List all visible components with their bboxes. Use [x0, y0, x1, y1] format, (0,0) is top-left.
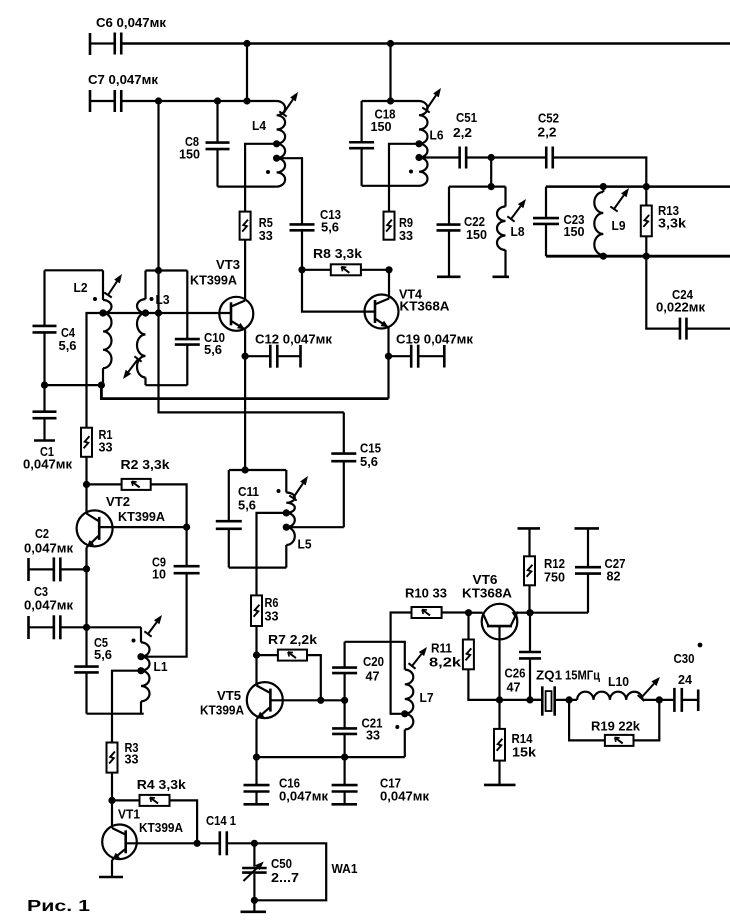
svg-text:15k: 15k [512, 745, 537, 760]
svg-text:150: 150 [564, 224, 585, 239]
capacitor C21 [332, 700, 382, 757]
node junction top rail / L4 feed [243, 40, 250, 47]
svg-text:5,6: 5,6 [360, 454, 378, 469]
svg-text:C2: C2 [35, 526, 49, 541]
wire C20 top to L7 top [345, 642, 405, 670]
L1 winding polarity dot [132, 639, 136, 643]
L5 trimmer arrow [289, 476, 308, 501]
quartz resonator ZQ1 [536, 669, 600, 716]
svg-text:33: 33 [125, 752, 139, 767]
svg-text:10: 10 [152, 567, 166, 582]
inductor L5 [286, 470, 311, 568]
svg-text:3,3k: 3,3k [658, 216, 687, 231]
wire C11 tank bottom [229, 566, 286, 568]
node VT5 emitter / C16 [253, 754, 260, 761]
L6 winding polarity dot [409, 170, 413, 174]
wire oscillator emitter bus [101, 385, 388, 399]
figure caption [27, 898, 91, 915]
wire L1 tap2 to R3 [112, 671, 141, 743]
svg-text:VT3: VT3 [216, 257, 240, 272]
wire collector node to C27 [530, 612, 588, 614]
resistor R3 [107, 740, 139, 773]
capacitor C2 [24, 526, 87, 581]
wire L5 tap1 to R6 [257, 513, 287, 596]
wire IF output top rail [546, 185, 730, 188]
wire C7 rail [121, 100, 276, 102]
wire VT5 emitter bus [257, 756, 405, 758]
wire R1 to VT2 collector node [85, 457, 87, 485]
node VT6 emitter-node / R12 / C26 [526, 609, 533, 616]
inductor L4 [252, 101, 285, 187]
node L9 top [600, 183, 607, 190]
C30 footnote asterisk dot [698, 643, 703, 648]
svg-text:KT368A: KT368A [400, 299, 451, 314]
resistor R7 [257, 632, 321, 700]
svg-text:0,047мк: 0,047мк [23, 457, 72, 472]
resistor R8 [302, 246, 389, 275]
resistor R11 [429, 613, 542, 700]
wire VT4 base from C13/R8 node [302, 270, 375, 312]
node VT2 emitter / C2 [83, 565, 90, 572]
svg-text:ZQ1: ZQ1 [536, 669, 562, 683]
node L4 tap 2 [273, 155, 280, 162]
L9 trimmer arrow [610, 188, 629, 212]
node R7 / VT5 base [317, 697, 324, 704]
svg-text:0,047мк: 0,047мк [279, 789, 328, 804]
svg-text:R4 3,3k: R4 3,3k [137, 777, 187, 792]
svg-text:24: 24 [678, 672, 693, 687]
svg-text:150: 150 [179, 147, 200, 162]
wire C15 to L5 tap2 [286, 526, 344, 528]
transistor VT3 [190, 257, 253, 331]
wire R3 to VT1 collector node [111, 773, 113, 801]
svg-text:0,047мк: 0,047мк [380, 789, 429, 804]
L3 name with polarity dot [150, 292, 170, 307]
resistor R12 [518, 528, 566, 612]
L4 trimmer arrow [279, 92, 298, 117]
svg-text:L3: L3 [156, 292, 170, 307]
svg-text:5,6: 5,6 [321, 220, 339, 235]
svg-text:R11: R11 [431, 641, 452, 656]
L3 trimmer arrow [123, 356, 142, 379]
svg-text:L6: L6 [430, 128, 444, 143]
svg-text:5,6: 5,6 [94, 647, 112, 662]
svg-text:750: 750 [544, 570, 565, 585]
svg-text:Рис. 1: Рис. 1 [27, 898, 91, 915]
node R2/C9/VT2-base [183, 524, 190, 531]
L2 winding polarity dot [93, 297, 97, 301]
resistor R19 [569, 700, 659, 746]
svg-text:L9: L9 [612, 218, 626, 233]
resistor R4 [112, 777, 197, 843]
capacitor C11 [216, 470, 259, 568]
capacitor C51 [453, 110, 477, 169]
wire C7 feed line down to C15 line [159, 101, 344, 412]
capacitor C4 [33, 270, 77, 385]
wire C5-L1 tank top [87, 626, 142, 628]
L7 trimmer arrow [408, 647, 427, 669]
capacitor C27 [575, 528, 626, 612]
node VT3-emitter/C11-tank [242, 466, 249, 473]
wire C7-feed corner to C15 [159, 411, 344, 413]
svg-text:L8: L8 [511, 224, 525, 239]
node C7/C8 junction [214, 97, 221, 104]
svg-text:C12 0,047мк: C12 0,047мк [255, 332, 332, 347]
node L8/C22 feed junction [488, 183, 495, 190]
svg-text:C6 0,047мк: C6 0,047мк [96, 15, 166, 30]
node C4/C1 junction [41, 382, 48, 389]
wire VT1 collector [111, 800, 113, 828]
L1 trimmer arrow [144, 615, 162, 637]
svg-text:C20: C20 [363, 654, 384, 669]
node L9 bottom [600, 253, 607, 260]
node C51/C52 junction [488, 154, 495, 161]
svg-text:R10 33: R10 33 [405, 586, 447, 601]
node R1/R2/VT2-collector [83, 481, 90, 488]
node C50/WA1 bottom [251, 897, 258, 904]
svg-text:L10: L10 [608, 675, 629, 689]
resistor R6 [251, 595, 279, 626]
svg-text:WA1: WA1 [332, 861, 358, 876]
capacitor C23 [533, 187, 585, 257]
inductor L2 [74, 270, 112, 385]
wire L4 tap1 to R5 [245, 144, 277, 212]
transistor VT1 [102, 807, 183, 861]
wire L6 tank bottom [362, 185, 419, 187]
node R4/C14/VT1-base [194, 840, 201, 847]
wire +supply top rail [121, 42, 730, 45]
svg-text:KT399A: KT399A [200, 703, 245, 718]
node VT3 emitter / C12 [242, 353, 249, 360]
svg-text:R8 3,3k: R8 3,3k [313, 246, 363, 261]
L7 winding polarity dot [395, 725, 399, 729]
svg-text:VT1: VT1 [118, 807, 140, 822]
node L7 tap [401, 710, 408, 717]
ground stub below C50 [241, 900, 267, 912]
capacitor C6 [90, 15, 166, 55]
svg-text:L1: L1 [154, 659, 168, 674]
node tap line / L3 [142, 309, 149, 316]
svg-text:C52: C52 [538, 111, 559, 126]
capacitor C18 [349, 101, 395, 186]
resistor R14 [484, 700, 537, 785]
svg-text:KT368A: KT368A [462, 586, 513, 601]
svg-text:47: 47 [507, 680, 521, 695]
capacitor C12 [245, 332, 332, 368]
inductor L10 [577, 675, 674, 700]
svg-text:C19 0,047мк: C19 0,047мк [396, 332, 473, 347]
svg-text:L4: L4 [252, 118, 267, 133]
capacitor C24 [646, 256, 730, 339]
svg-text:0,022мк: 0,022мк [656, 300, 705, 315]
wire VT2 collector [85, 484, 87, 513]
node VT6/R14 output junction [496, 696, 503, 703]
svg-text:33: 33 [366, 728, 380, 743]
svg-text:33: 33 [399, 228, 413, 243]
svg-text:2,2: 2,2 [453, 125, 472, 140]
wire top rail to L6 tank [389, 44, 391, 102]
wire VT4 emitter down [387, 328, 389, 399]
node L2 coil bottom junction [98, 382, 105, 389]
L6 trimmer arrow [422, 88, 441, 113]
node tap line / L2 [99, 309, 106, 316]
svg-text:5,6: 5,6 [59, 338, 77, 353]
node C13/R8/VT4-base junction [298, 266, 305, 273]
inductor L8 [493, 187, 525, 277]
resistor R1 [81, 427, 113, 457]
capacitor C7 [88, 72, 158, 112]
node C3 / C5-L1 tank top [83, 624, 90, 631]
wire L6 tap2 to C51 [419, 156, 459, 158]
wire VT6 collector lead down [498, 626, 500, 700]
wire VT2 emitter down [85, 548, 87, 628]
svg-text:VT2: VT2 [106, 494, 130, 509]
wire top rail to C7 rail [246, 44, 248, 102]
capacitor C1 [23, 385, 72, 471]
capacitor C14 [197, 813, 254, 855]
capacitor C20 [332, 642, 384, 701]
capacitor C19 [389, 332, 474, 368]
svg-text:2,2: 2,2 [538, 125, 557, 140]
wire VT1 emitter to common [111, 860, 113, 877]
wire base bias tap line [87, 313, 232, 428]
L4 winding polarity dot [266, 170, 270, 174]
capacitor C13 [290, 207, 342, 270]
wire L2 tank bottom [45, 384, 102, 386]
svg-text:150: 150 [371, 119, 392, 134]
svg-text:C51: C51 [456, 110, 477, 125]
svg-text:82: 82 [607, 569, 621, 584]
L2 trimmer arrow [104, 274, 122, 297]
resistor R10 [391, 586, 469, 714]
svg-text:0,047мк: 0,047мк [24, 598, 73, 613]
capacitor C8 [179, 101, 230, 187]
capacitor C52 [538, 111, 560, 169]
node R3/R4/VT1-collector [108, 797, 115, 804]
inductor L3 [137, 271, 146, 386]
inductor L1 [141, 627, 168, 713]
wire L6 tank top [362, 100, 419, 102]
node R6/R7/VT5-collector [253, 652, 260, 659]
wire IF output bottom rail [546, 255, 730, 258]
wire L2 tank top [45, 269, 104, 271]
wire R6 to VT5 collector node [255, 626, 257, 655]
transistor VT2 [77, 494, 166, 548]
node tap line / C7 feed [155, 309, 162, 316]
wire VT5 base line [270, 699, 344, 701]
wire L1 tap1 to C9 [141, 656, 187, 658]
svg-text:5,6: 5,6 [238, 498, 256, 513]
wire C51 to C52 [466, 156, 546, 158]
transistor VT6 [462, 572, 530, 639]
capacitor C5 [74, 627, 112, 713]
node L5 tap 1 [283, 509, 290, 516]
svg-text:150: 150 [466, 227, 487, 242]
svg-text:C30: C30 [674, 651, 695, 666]
svg-text:R19 22k: R19 22k [591, 719, 641, 734]
wire R5 to VT3 collector [244, 240, 246, 301]
wire VT5 emitter down [255, 719, 257, 757]
svg-text:KT399A: KT399A [190, 273, 238, 288]
resistor R2 [87, 457, 187, 527]
L5 winding polarity dot [277, 489, 281, 493]
node junction top rail / L6 feed [387, 40, 394, 47]
VT1 emitter common bar [99, 876, 123, 879]
node C7/feed junction [155, 97, 162, 104]
node L6 tap 2 [415, 154, 422, 161]
svg-text:C50: C50 [271, 856, 292, 871]
node VT4 emitter / C19 [385, 353, 392, 360]
node L5 tap 2 [283, 524, 290, 531]
transistor VT5 [200, 682, 283, 719]
svg-text:VT5: VT5 [217, 688, 241, 703]
svg-text:R2 3,3k: R2 3,3k [121, 457, 171, 472]
capacitor C17 [332, 757, 430, 804]
node L1 tap 2 [137, 667, 144, 674]
resistor R9 [384, 212, 414, 243]
node C26 bottom junction [526, 696, 533, 703]
node C20/C21 / VT5 base [341, 697, 348, 704]
node C7/L4 junction [243, 97, 250, 104]
svg-text:47: 47 [366, 669, 380, 684]
node L3 tap [142, 309, 149, 316]
svg-text:33: 33 [259, 228, 273, 243]
svg-text:L2: L2 [74, 280, 88, 295]
svg-text:0,047мк: 0,047мк [24, 541, 73, 556]
node R8/R9/VT4-collector junction [385, 266, 392, 273]
wire C11 tank top [229, 469, 286, 471]
wire C22-L8 top [449, 186, 506, 188]
svg-text:5,6: 5,6 [204, 342, 222, 357]
transistor VT4 [365, 287, 451, 329]
L8 trimmer arrow [507, 199, 526, 222]
node L6 tank top junction [387, 97, 394, 104]
svg-text:L7: L7 [420, 690, 434, 705]
wire VT2 base to C9 node [99, 526, 186, 528]
svg-text:C7 0,047мк: C7 0,047мк [88, 72, 158, 87]
node L3 top / C7 feed [155, 267, 162, 274]
wire L4 tap2 to C13 [277, 158, 302, 224]
wire L4 tank bottom [218, 186, 277, 188]
wire VT1 base to C14 [126, 842, 197, 844]
capacitor C3 [24, 584, 87, 639]
node R10/R11/VT6-base [465, 609, 472, 616]
capacitor C9 [141, 527, 200, 657]
inductor L7 [405, 670, 434, 758]
capacitor C26 [505, 613, 542, 700]
inductor L6 [419, 101, 444, 186]
antenna WA1 loop [254, 843, 357, 900]
node R13 top [643, 183, 650, 190]
capacitor C10 [175, 271, 225, 386]
svg-text:R7 2,2k: R7 2,2k [268, 632, 318, 647]
L10 trimmer arrow [638, 677, 660, 701]
svg-text:8,2k: 8,2k [429, 655, 462, 670]
node L4 tap 1 [273, 140, 280, 147]
node L2 tap [99, 309, 106, 316]
svg-text:15МГц: 15МГц [565, 669, 600, 683]
svg-text:L5: L5 [298, 537, 312, 552]
wire C52 to L9 tank [553, 158, 647, 187]
resistor R13 [641, 187, 687, 257]
wire output line segment 1 [530, 699, 542, 701]
capacitor C16 [244, 757, 329, 804]
node L6 tap 1 [415, 140, 422, 147]
node R13 bottom [643, 253, 650, 260]
svg-text:C26: C26 [505, 666, 526, 681]
wire L3 tank top [146, 269, 188, 271]
wire R9 to L6 tap1 [389, 144, 419, 212]
node C21/C17 bottom [341, 754, 348, 761]
wire L3 tank bottom [146, 384, 188, 386]
inductor L9 [594, 187, 625, 257]
wire VT5 collector [255, 655, 257, 685]
svg-text:33: 33 [99, 440, 113, 455]
node C14/WA1/C50 [251, 840, 258, 847]
wire VT4 collector [388, 270, 390, 299]
wire C5-L1 tank bottom [87, 713, 144, 715]
node L10 / C30 / R19 [656, 696, 663, 703]
wire output line segment 2 [555, 699, 577, 701]
node L1 tap 1 [137, 653, 144, 660]
capacitor C30 [674, 651, 699, 712]
wire C51/C52 junction down to L8/C22 [490, 158, 492, 187]
svg-text:2...7: 2...7 [271, 870, 299, 885]
svg-text:KT399A: KT399A [118, 509, 166, 524]
capacitor C15 [331, 412, 381, 527]
wire VT3 emitter down to C11 tank [244, 330, 246, 471]
capacitor C22 [437, 187, 488, 277]
trimmer capacitor C50 [242, 843, 299, 900]
svg-text:KT399A: KT399A [139, 820, 184, 835]
svg-text:33: 33 [265, 609, 279, 624]
node ZQ1 / L10 / R19 [566, 696, 573, 703]
svg-text:C14 1: C14 1 [206, 813, 236, 828]
resistor R5 [240, 212, 273, 243]
